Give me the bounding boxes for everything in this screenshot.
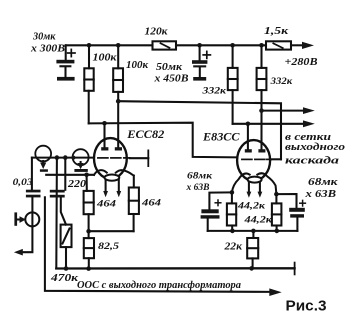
tube1 grid lead right with terminal bar bbox=[130, 157, 149, 159]
tube ECC82 envelope bbox=[94, 138, 127, 179]
svg-text:470к: 470к bbox=[50, 273, 79, 284]
rail end tick bbox=[294, 263, 296, 275]
capacitor 68мк x63В (left) bbox=[201, 209, 220, 218]
svg-text:х 63В: х 63В bbox=[304, 189, 336, 200]
resistor 120к (horizontal) bbox=[153, 41, 177, 49]
resistor 44,2к (second) bbox=[275, 194, 277, 203]
svg-text:464: 464 bbox=[141, 199, 162, 209]
svg-text:22к: 22к bbox=[223, 241, 242, 252]
connector lamp symbol 1 circle bbox=[35, 146, 51, 162]
plus sign of 30мк cap bbox=[68, 49, 75, 56]
resistor 332к (first) bbox=[232, 45, 234, 68]
svg-text:68мк: 68мк bbox=[308, 177, 338, 188]
tube2 grid right lead bbox=[271, 158, 281, 160]
resistor 464 (second) bbox=[133, 214, 135, 231]
wire anode2 tube1 to grid tube2 (y=102) bbox=[118, 101, 281, 159]
svg-text:100к: 100к bbox=[126, 60, 149, 71]
tube2 grid (dashed) bbox=[242, 158, 271, 160]
resistor 464 (first) bbox=[86, 175, 88, 191]
svg-text:30мк: 30мк bbox=[32, 32, 56, 43]
wire input coupling branch bbox=[31, 158, 33, 190]
node dot rail/332k2 bbox=[259, 43, 264, 48]
wire tube2 cathode right to 68uF cap2 bbox=[276, 194, 296, 208]
tube1 heater lead arrows bbox=[105, 180, 107, 192]
svg-text:0,03: 0,03 bbox=[13, 178, 33, 188]
svg-text:каскада: каскада bbox=[285, 155, 339, 166]
arrow to second channel (left) bbox=[14, 249, 23, 256]
svg-text:44,2к: 44,2к bbox=[243, 215, 273, 225]
node dot 44,2k2 bottom bbox=[275, 229, 280, 234]
tube2 anode1 plate bbox=[245, 149, 252, 152]
resistor 1,5к (horizontal) bbox=[266, 41, 291, 49]
wire input grid line y=157.6 bbox=[32, 157, 94, 159]
resistor 100к (first) bbox=[88, 45, 90, 68]
node dot anode2 branch bbox=[116, 99, 121, 104]
node dot rail/332k1 bbox=[230, 43, 235, 48]
wire anode1 tube1 to grid tube2 left (y=123) bbox=[89, 123, 238, 158]
wire 332k2/anode2 to output arrow 1 bbox=[262, 110, 304, 112]
node dot grid bus 2 bbox=[63, 155, 68, 160]
tube2 cathode left arc and tail bbox=[232, 173, 250, 192]
input jack circle bbox=[25, 212, 39, 226]
capacitor 220 bbox=[50, 190, 65, 198]
wire top rail right segment to +280V bbox=[291, 44, 303, 46]
resistor 332к (second) bbox=[260, 45, 262, 68]
node dot anode1 branch bbox=[102, 121, 107, 126]
resistor 22к bbox=[252, 231, 254, 238]
wire top supply rail left segment bbox=[66, 44, 153, 46]
tube2 heater lead arrows bbox=[248, 182, 250, 192]
tube2 heater oval bbox=[248, 177, 262, 183]
arrow output 2 bbox=[303, 120, 315, 127]
wire 0,03 bottom to OOC line bbox=[45, 197, 270, 292]
node dot cathode bottom bus bbox=[86, 229, 91, 234]
svg-text:выходного: выходного bbox=[285, 142, 345, 153]
tube E83CC envelope bbox=[237, 140, 270, 181]
svg-text:ООС с выходного трансформатора: ООС с выходного трансформатора bbox=[77, 279, 241, 291]
wire branch x57 down to ground rail bbox=[55, 158, 58, 269]
connector lamp2 arrow and chassis bar bbox=[80, 162, 82, 165]
wire tube2 anode1 lead bbox=[247, 124, 249, 149]
plus sign of 68uF right bbox=[300, 200, 306, 206]
node dot rail/100k2 bbox=[116, 43, 121, 48]
ground rail bottom bbox=[56, 267, 294, 270]
arrow output 1 bbox=[303, 107, 315, 114]
svg-text:332к: 332к bbox=[270, 77, 294, 87]
svg-text:220: 220 bbox=[67, 179, 87, 190]
tube1 grid (dashed) bbox=[98, 157, 130, 159]
svg-text:х 63В: х 63В bbox=[185, 183, 209, 193]
svg-text:82,5: 82,5 bbox=[98, 242, 119, 252]
node dot rail/100k1 bbox=[87, 43, 92, 48]
wire 30uF cap drop bbox=[65, 45, 67, 59]
node dot 22k top bbox=[251, 229, 256, 234]
node dot 470k bottom bbox=[64, 266, 69, 271]
svg-text:464: 464 bbox=[96, 200, 117, 210]
wire jack to cap bbox=[31, 197, 33, 226]
svg-text:332к: 332к bbox=[201, 86, 227, 96]
svg-text:1,5к: 1,5к bbox=[264, 26, 289, 37]
tube1 anode2 plate bbox=[115, 147, 122, 150]
node dot grid bus 3 bbox=[71, 156, 75, 160]
input jack arrow bbox=[17, 218, 20, 220]
svg-text:ЕСС82: ЕСС82 bbox=[126, 129, 164, 141]
wire anode1 lead tube1 bbox=[103, 123, 105, 147]
tube1 cathode right arc bbox=[116, 170, 134, 175]
resistor 470к bbox=[61, 225, 72, 248]
connector lamp1 arrow and chassis bar bbox=[42, 161, 44, 164]
wire 332k1 bottom to output arrow 2 bbox=[233, 123, 303, 125]
node dot tube2 anode1 bbox=[246, 122, 251, 127]
arrow OOC to output transformer bbox=[269, 288, 281, 296]
tube1 heater oval bbox=[105, 175, 120, 181]
resistor 100к (second) bbox=[117, 45, 119, 68]
tube1 anode1 plate bbox=[101, 147, 108, 150]
input jack terminal bar bbox=[14, 212, 17, 225]
svg-text:68мк: 68мк bbox=[187, 172, 213, 182]
svg-text:х 450В: х 450В bbox=[153, 74, 188, 85]
plus sign of 68uF left bbox=[215, 200, 221, 206]
wire branch x65 to 220 cap bbox=[64, 158, 66, 190]
node dot arrow1 bbox=[259, 108, 264, 113]
node dot tube2 cathode right bbox=[274, 192, 279, 197]
node dot rail/50uF bbox=[197, 43, 202, 48]
node dot 82,5 on rail bbox=[86, 266, 91, 271]
plus sign of 50мк cap bbox=[203, 51, 210, 58]
capacitor 0,03 bbox=[26, 190, 41, 198]
svg-text:50мк: 50мк bbox=[156, 62, 183, 73]
connector lamp symbol 2 circle bbox=[73, 149, 89, 165]
node dot 22k bottom bbox=[249, 266, 254, 271]
svg-text:44,2к: 44,2к bbox=[237, 202, 267, 212]
arrow +280В bbox=[302, 42, 314, 49]
wire bottom bus 464s bbox=[89, 230, 134, 232]
svg-text:100к: 100к bbox=[93, 53, 118, 64]
wire 220 cap to 470k bbox=[61, 198, 66, 225]
svg-text:х 300В: х 300В bbox=[30, 43, 65, 54]
wire cathode bottom bus stage2 bbox=[208, 230, 298, 232]
capacitor 68мк x63В (right) bbox=[289, 208, 305, 218]
svg-text:Рис.3: Рис.3 bbox=[286, 299, 327, 315]
wire top rail middle segment bbox=[176, 44, 266, 46]
tube1 cathode left arc bbox=[94, 170, 107, 175]
node dot tube2 cathode left bbox=[230, 190, 235, 195]
wire jack down and left arrow bbox=[23, 226, 33, 252]
resistor 44,2к (first) bbox=[231, 192, 233, 203]
wire tube2 cathode left to 68uF cap1 bbox=[209, 192, 232, 209]
tube2 anode2 plate bbox=[258, 149, 265, 152]
node dot 464#1 top bbox=[84, 173, 89, 178]
capacitor 30мк x300В bbox=[56, 60, 74, 81]
resistor 82,5 bbox=[88, 231, 90, 238]
svg-text:+280В: +280В bbox=[285, 57, 318, 68]
tube2 cathode right arc and tail bbox=[257, 173, 276, 194]
capacitor 50мк x450В bbox=[199, 45, 201, 60]
node dot 44,2k1 bottom bbox=[230, 229, 235, 234]
svg-text:Е83СС: Е83СС bbox=[202, 131, 240, 143]
svg-text:120к: 120к bbox=[145, 26, 169, 37]
wire cathode bus tube1 (y=175) bbox=[46, 174, 94, 176]
node dot grid bus 1 bbox=[55, 155, 60, 160]
